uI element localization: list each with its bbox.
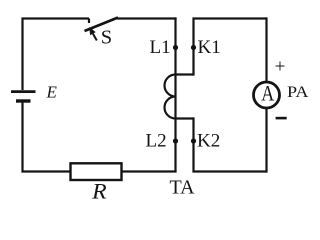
transformer TA secondary winding: [165, 75, 194, 119]
wire: battery negative to resistor (bottom-left): [23, 103, 72, 172]
wire: battery positive to switch (left + top-left): [23, 19, 90, 91]
svg-text:L2: L2: [146, 131, 167, 152]
svg-text:+: +: [275, 57, 286, 78]
wire: K1 to ammeter (top-right): [194, 19, 267, 76]
junction dot L1: [173, 45, 178, 50]
junction dot L2: [173, 138, 178, 143]
polarity mark −: [276, 117, 287, 120]
wire: K2 to ammeter (bottom-right): [194, 117, 267, 171]
wire: resistor to primary L2 (bottom): [121, 170, 177, 172]
junction dot K1: [191, 45, 196, 50]
svg-text:S: S: [101, 26, 112, 48]
svg-text:K1: K1: [198, 37, 221, 58]
svg-text:PA: PA: [287, 84, 309, 101]
wire: ammeter branch (right): [265, 17, 267, 172]
wire: switch to transformer primary (top): [117, 17, 177, 19]
junction dot K2: [191, 138, 196, 143]
svg-text:TA: TA: [170, 177, 196, 199]
svg-text:A: A: [261, 81, 274, 106]
ammeter PA: [254, 82, 280, 108]
svg-text:E: E: [46, 83, 58, 102]
resistor R: [71, 163, 122, 180]
svg-text:L1: L1: [150, 37, 171, 58]
svg-text:K2: K2: [197, 131, 220, 152]
switch S: [85, 18, 119, 41]
transformer TA primary conductor L1-L2: [174, 17, 176, 171]
svg-text:R: R: [91, 179, 107, 203]
battery E: [11, 92, 36, 101]
